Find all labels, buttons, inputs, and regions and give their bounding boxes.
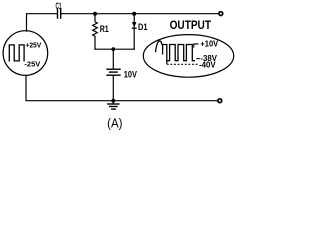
svg-text:(A): (A) [107, 116, 122, 130]
diode D1 cathode bar [132, 27, 137, 29]
source V1 circle [3, 31, 48, 76]
junction node battery top [111, 47, 115, 51]
svg-text:-25V: -25V [24, 60, 40, 69]
svg-text:+25V: +25V [25, 41, 41, 50]
terminal top-right [219, 12, 223, 16]
svg-text:R1: R1 [100, 24, 109, 34]
junction node at R1 top [93, 12, 97, 16]
wire R1 bottom to D1 bottom [95, 48, 134, 50]
capacitor C1 [58, 9, 61, 18]
wire C1 to output terminal [62, 13, 219, 15]
junction node ground [111, 99, 115, 103]
resistor R1 [93, 14, 98, 50]
svg-text:+10V: +10V [200, 39, 219, 48]
svg-text:-40V: -40V [199, 60, 216, 69]
dashed -40V level line [167, 63, 198, 65]
svg-text:10V: 10V [124, 69, 138, 80]
ground symbol [108, 101, 119, 109]
dash tick at -38V [196, 58, 199, 60]
diode D1 wire [133, 14, 135, 50]
waveform initial spike [156, 41, 162, 52]
junction node at D1 top [132, 12, 136, 16]
battery BT1 plates [107, 69, 120, 75]
battery wire bottom [112, 76, 114, 101]
diode D1 triangle [132, 22, 137, 27]
square-wave glyph inside source [9, 45, 24, 61]
wire source bottom to rail [26, 75, 217, 100]
svg-text:D1: D1 [138, 22, 148, 32]
dash tick at +10V [194, 44, 199, 48]
battery wire top [112, 49, 114, 68]
svg-text:C1: C1 [56, 1, 62, 11]
terminal bottom-right [218, 99, 222, 103]
output waveform ellipse [143, 35, 233, 78]
waveform square wave [162, 45, 195, 64]
wire top-left from source to C1 [27, 14, 57, 32]
svg-text:OUTPUT: OUTPUT [170, 18, 212, 32]
